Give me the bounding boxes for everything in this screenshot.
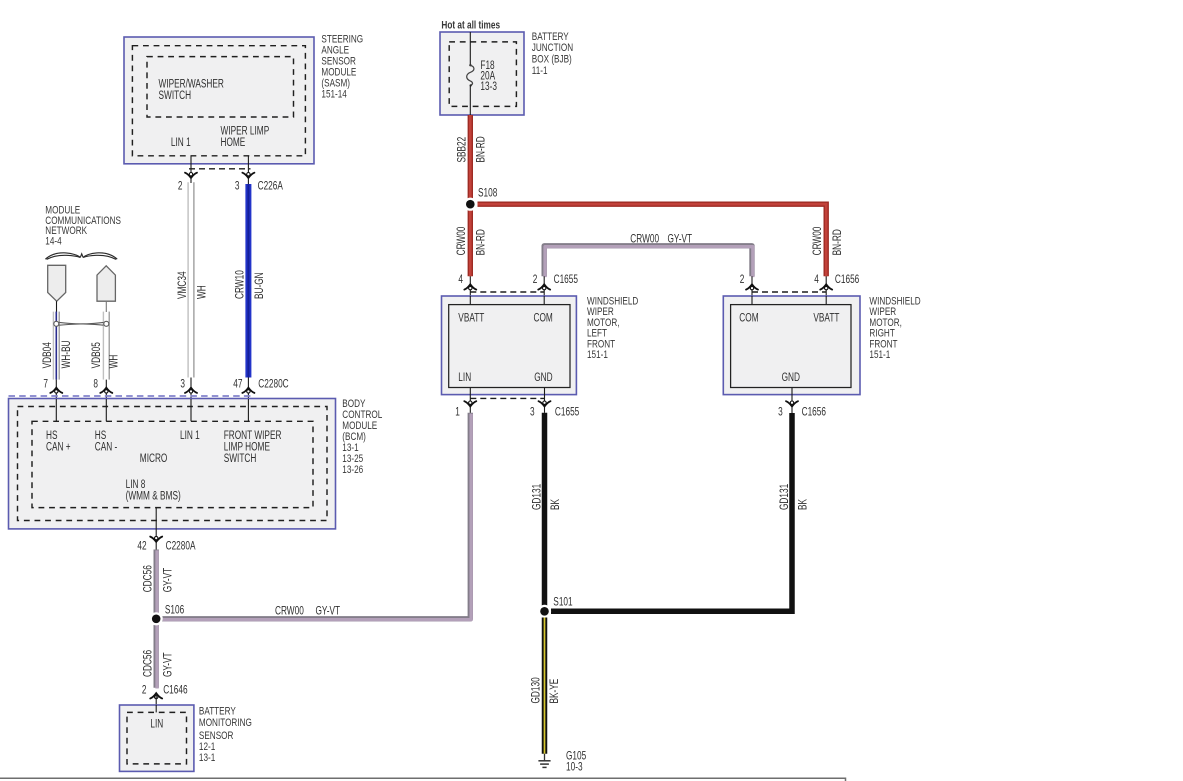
svg-text:VDB04: VDB04 xyxy=(41,342,54,368)
svg-text:10-3: 10-3 xyxy=(566,761,583,774)
svg-text:(WMM & BMS): (WMM & BMS) xyxy=(126,490,181,503)
wire stub right wiper COM (inside box) xyxy=(751,296,753,305)
svg-text:GND: GND xyxy=(782,372,800,385)
ground G105 symbol xyxy=(544,754,546,761)
svg-text:C1655: C1655 xyxy=(555,406,580,419)
svg-text:C2280C: C2280C xyxy=(258,378,289,391)
wire VDB04 WH-BU xyxy=(52,312,54,380)
pin arrow BCM pin 47 xyxy=(242,388,254,393)
wire stub from left wiper LIN xyxy=(469,388,471,413)
wire stub right wiper VBATT (inside box) xyxy=(825,296,827,305)
svg-text:CAN -: CAN - xyxy=(95,441,118,454)
svg-text:CRW00: CRW00 xyxy=(630,233,659,246)
brace over network connectors xyxy=(45,253,117,260)
svg-text:GD131: GD131 xyxy=(531,484,544,510)
component box Battery Monitoring Sensor xyxy=(120,705,194,771)
svg-text:SWITCH: SWITCH xyxy=(224,453,257,466)
wire stub from left wiper GND xyxy=(544,388,546,413)
svg-text:7: 7 xyxy=(43,378,48,391)
wire SBB22 BN-RD xyxy=(468,115,473,199)
splice S101 xyxy=(538,605,551,618)
svg-text:VBATT: VBATT xyxy=(813,312,840,325)
fuse F18 element xyxy=(469,64,471,66)
svg-text:MICRO: MICRO xyxy=(140,453,168,466)
svg-text:LIN 1: LIN 1 xyxy=(180,429,200,442)
svg-text:Hot at all times: Hot at all times xyxy=(441,19,500,31)
wire stub into BCM pin 3 xyxy=(190,378,192,400)
svg-text:C226A: C226A xyxy=(258,180,283,193)
pin arrow SASM pin 3 xyxy=(242,173,254,178)
svg-text:CDC56: CDC56 xyxy=(142,650,155,677)
wire stub into BMS box xyxy=(155,696,157,712)
svg-text:13-3: 13-3 xyxy=(480,81,497,94)
svg-text:1: 1 xyxy=(455,406,460,419)
wire stub BCM pin 3 (inside box) xyxy=(190,399,192,421)
pin arrow BCM pin 3 xyxy=(185,388,197,393)
svg-text:BK: BK xyxy=(550,499,563,510)
pin arrow right wiper pin 4 xyxy=(820,284,832,289)
svg-text:LIN 1: LIN 1 xyxy=(171,137,191,150)
svg-text:GY-VT: GY-VT xyxy=(668,233,693,246)
pin arrow left wiper pin 3 xyxy=(539,401,551,406)
svg-text:47: 47 xyxy=(233,378,242,391)
svg-text:CRW00: CRW00 xyxy=(456,226,469,255)
svg-text:CRW10: CRW10 xyxy=(234,270,247,299)
svg-text:BK-YE: BK-YE xyxy=(548,679,561,704)
svg-text:2: 2 xyxy=(533,274,538,287)
svg-text:GY-VT: GY-VT xyxy=(162,567,175,592)
wire stub BMS LIN (inside box) xyxy=(155,705,157,712)
wire stub below VDB05 connector xyxy=(105,301,107,312)
svg-text:42: 42 xyxy=(137,540,146,553)
svg-text:C2280A: C2280A xyxy=(166,540,196,553)
svg-text:2: 2 xyxy=(740,274,745,287)
svg-text:S106: S106 xyxy=(165,604,185,617)
svg-text:BU-GN: BU-GN xyxy=(254,272,267,299)
splice S106 xyxy=(150,612,163,625)
twisted pair symbol xyxy=(59,322,103,325)
svg-text:GD130: GD130 xyxy=(530,677,543,703)
wire stub below VDB04 connector xyxy=(56,301,58,312)
svg-text:2: 2 xyxy=(178,180,183,193)
wire stub into BCM pin 7 xyxy=(55,380,57,399)
connector C226A dashed line xyxy=(189,168,251,170)
splice S108 xyxy=(464,198,477,211)
svg-text:VMC34: VMC34 xyxy=(177,271,190,299)
connector C1655 dashed line (bottom) xyxy=(470,397,544,399)
svg-text:GND: GND xyxy=(534,372,552,385)
wire stub left wiper VBATT (inside box) xyxy=(469,296,471,305)
fuse F18 wire (bottom) xyxy=(469,85,471,115)
wire stub left wiper COM (inside box) xyxy=(543,296,545,305)
component box Windshield Wiper Motor Left Front xyxy=(442,296,577,395)
svg-text:WH: WH xyxy=(196,285,209,299)
pin arrow left wiper pin 1 xyxy=(464,401,476,406)
wire stub SASM WIPER LIMP HOME pin 3 xyxy=(247,156,249,184)
svg-text:WH: WH xyxy=(108,355,121,369)
svg-text:CRW00: CRW00 xyxy=(812,226,825,255)
pin arrow BCM pin 7 xyxy=(50,388,62,393)
wire stub BCM pin 47 (inside box) xyxy=(247,399,249,421)
pin arrow BMS pin 2 xyxy=(150,693,162,698)
svg-text:CAN +: CAN + xyxy=(46,441,71,454)
svg-text:VBATT: VBATT xyxy=(458,312,485,325)
connector C1656 dashed line (top) xyxy=(752,291,826,293)
svg-text:151-1: 151-1 xyxy=(587,349,608,362)
svg-text:CDC56: CDC56 xyxy=(142,565,155,592)
pin arrow SASM pin 2 xyxy=(185,173,197,178)
svg-text:S108: S108 xyxy=(478,187,498,200)
wire stub BCM pin 8 (inside box) xyxy=(105,399,107,421)
pin arrow left wiper pin 4 xyxy=(464,284,476,289)
svg-text:14-4: 14-4 xyxy=(45,235,62,248)
svg-text:CRW00: CRW00 xyxy=(275,605,304,618)
svg-text:C1656: C1656 xyxy=(802,406,827,419)
svg-text:3: 3 xyxy=(530,406,535,419)
wire stub SASM LIN1 pin 2 xyxy=(190,156,192,183)
svg-text:151-14: 151-14 xyxy=(321,89,347,102)
svg-text:BN-RD: BN-RD xyxy=(831,229,844,255)
svg-text:3: 3 xyxy=(235,180,240,193)
pin arrow right wiper pin 2 xyxy=(746,284,758,289)
wire stub into right wiper COM xyxy=(751,276,753,296)
wire VMC34 WH xyxy=(187,182,189,377)
wire stub BCM pin 7 (inside box) xyxy=(55,399,57,421)
connector C2280C dashed line (blue) xyxy=(9,395,253,397)
connector C1655 dashed line (top) xyxy=(470,291,544,293)
svg-text:BN-RD: BN-RD xyxy=(475,136,488,162)
svg-text:HOME: HOME xyxy=(221,137,246,150)
pin arrow BCM pin 42 xyxy=(150,537,162,542)
wire stub into BCM pin 8 xyxy=(105,380,107,399)
page footer rule xyxy=(0,778,846,781)
off-page connector (down) VDB04 xyxy=(48,265,66,301)
pin arrow left wiper pin 2 xyxy=(538,284,550,289)
svg-text:VDB05: VDB05 xyxy=(90,342,103,368)
svg-text:C1656: C1656 xyxy=(835,274,860,287)
wire CRW00 BN-RD (S108 to left wiper VBATT) xyxy=(468,210,473,276)
component box BJB (Battery Junction Box) xyxy=(440,32,524,115)
svg-text:COM: COM xyxy=(739,312,758,325)
wire stub into left wiper VBATT xyxy=(469,276,471,296)
wire GD131 BK (left) xyxy=(542,413,548,612)
pin arrow right wiper pin 3 xyxy=(786,401,798,406)
svg-text:BN-RD: BN-RD xyxy=(475,229,488,255)
wire CDC56 GY-VT (upper) xyxy=(153,550,158,615)
wire CRW00 GY-VT (COM link) xyxy=(544,246,752,276)
svg-text:13-1: 13-1 xyxy=(199,752,215,765)
wire CRW00 BN-RD (S108 to right wiper VBATT) xyxy=(478,204,827,276)
wire VDB05 WH xyxy=(102,312,104,380)
svg-text:C1655: C1655 xyxy=(554,274,579,287)
svg-text:2: 2 xyxy=(142,684,147,697)
component box SASM (Steering Angle Sensor Module) xyxy=(124,37,314,164)
svg-text:3: 3 xyxy=(180,378,185,391)
wire stub into BCM pin 47 xyxy=(247,378,249,400)
wire GD130 BK-YE xyxy=(542,618,548,754)
svg-text:13-26: 13-26 xyxy=(342,464,363,477)
wire stub from right wiper GND xyxy=(791,388,793,414)
wire GD131 BK (right) xyxy=(551,413,792,611)
wire CRW10 BU-GN xyxy=(245,184,251,378)
svg-text:MONITORING: MONITORING xyxy=(199,717,252,730)
svg-text:3: 3 xyxy=(778,406,783,419)
svg-text:GY-VT: GY-VT xyxy=(316,605,341,618)
svg-text:BK: BK xyxy=(797,499,810,510)
svg-text:8: 8 xyxy=(93,378,98,391)
svg-text:GD131: GD131 xyxy=(778,484,791,510)
fuse F18 wire (top) xyxy=(469,32,471,65)
component box Windshield Wiper Motor Right Front xyxy=(723,296,860,395)
off-page connector (up) VDB05 xyxy=(97,266,115,301)
svg-text:COM: COM xyxy=(534,312,553,325)
wire CDC56 GY-VT (lower) xyxy=(153,623,158,688)
svg-text:4: 4 xyxy=(458,274,463,287)
svg-text:LIN: LIN xyxy=(458,372,471,385)
component box BCM (Body Control Module) xyxy=(9,399,336,529)
svg-text:SBB22: SBB22 xyxy=(456,137,469,163)
svg-text:GY-VT: GY-VT xyxy=(162,652,175,677)
svg-text:C1646: C1646 xyxy=(163,684,188,697)
wire stub into left wiper COM xyxy=(543,276,545,296)
svg-text:WH-BU: WH-BU xyxy=(61,340,74,368)
wire CRW00 GY-VT (S106 to left wiper LIN) xyxy=(162,413,470,619)
wire stub into right wiper VBATT xyxy=(825,276,827,296)
svg-text:S101: S101 xyxy=(553,596,573,609)
svg-text:LIN: LIN xyxy=(150,718,163,731)
pin arrow BCM pin 8 xyxy=(100,388,112,393)
wire stub BCM LIN8 pin 42 xyxy=(155,508,157,550)
svg-text:4: 4 xyxy=(814,274,819,287)
svg-text:151-1: 151-1 xyxy=(869,349,890,362)
svg-text:11-1: 11-1 xyxy=(532,65,548,78)
svg-text:SWITCH: SWITCH xyxy=(159,89,192,102)
